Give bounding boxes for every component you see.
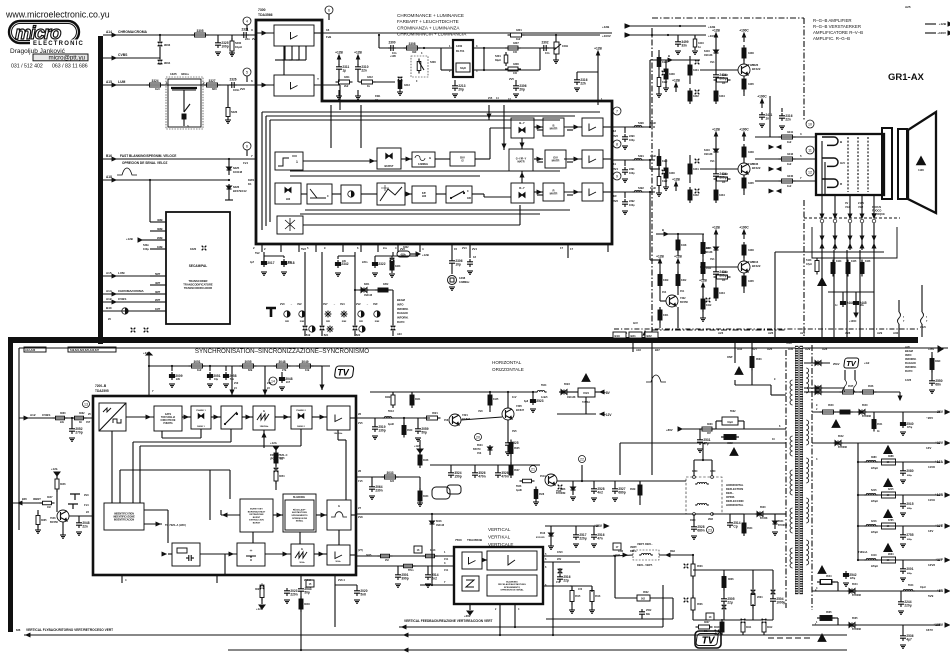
IC block R-Y demod (511, 183, 534, 203)
wire lum path (339, 85, 341, 110)
wire vert row465 (430, 464, 540, 466)
svg-text:3442: 3442 (787, 152, 794, 156)
resistor 3409 (658, 275, 662, 286)
svg-text:1N4148: 1N4148 (567, 396, 576, 399)
capacitor 2017 (263, 259, 265, 262)
svg-text:K1: K1 (248, 182, 252, 186)
capacitor 2322 (375, 255, 418, 257)
wire pin col 305 (304, 252, 306, 336)
svg-text:3V1: 3V1 (680, 290, 685, 293)
svg-text:220n: 220n (362, 261, 368, 264)
svg-text:CVBS: CVBS (42, 413, 50, 417)
wire horiz bus (370, 391, 536, 393)
svg-text:2MB: 2MB (157, 236, 163, 240)
arrows connector 137 (769, 145, 773, 149)
svg-text:3533: 3533 (756, 358, 762, 361)
IC block sync gate G (327, 500, 351, 530)
svg-text:+12B: +12B (672, 178, 680, 182)
svg-text:1325: 1325 (170, 72, 177, 76)
svg-text:−26V: −26V (935, 410, 944, 414)
resistor 3324 (150, 83, 161, 87)
resistor 3785 (882, 523, 896, 529)
wire to flyback pin (775, 513, 786, 515)
svg-text:10n: 10n (545, 51, 550, 55)
svg-text:+12V: +12V (935, 441, 944, 445)
supply +12B pin1 (597, 55, 599, 60)
svg-text:BYD33D: BYD33D (852, 595, 861, 597)
svg-text:3307: 3307 (513, 41, 519, 45)
svg-text:1µ: 1µ (342, 68, 346, 72)
wire pin17 (567, 252, 569, 258)
svg-text:3420: 3420 (662, 160, 668, 163)
arrow A14 (112, 33, 116, 37)
svg-text:3045: 3045 (279, 457, 285, 460)
svg-text:AMPLIFIC. R–G–B: AMPLIFIC. R–G–B (813, 36, 850, 41)
IC 7200-B TDA2595 outline (93, 396, 356, 575)
pwr right edge (925, 23, 936, 25)
svg-text:ONP: ONP (727, 356, 733, 359)
wire +12V rail (812, 442, 940, 444)
capacitor 2527 (614, 486, 616, 489)
diode 6426 (715, 141, 717, 147)
svg-text:10µH: 10µH (727, 422, 733, 424)
pin circle 14 (269, 377, 277, 385)
CRT gun R (822, 179, 838, 187)
sync section top border (19, 347, 948, 349)
svg-text:3V6: 3V6 (613, 134, 618, 138)
resistor 3546 (863, 390, 874, 394)
IC block osc 50hz (291, 544, 314, 566)
svg-text:7300: 7300 (258, 8, 266, 12)
wire A12 cvbs to secam (103, 301, 150, 303)
svg-text:EXTRACCION: EXTRACCION (249, 519, 264, 522)
wire beam col (392, 290, 394, 336)
svg-text:VERT. DEFL.: VERT. DEFL. (637, 542, 653, 546)
svg-text:→: → (366, 303, 369, 306)
svg-text:+12A: +12A (414, 444, 420, 448)
transistor 7528 (545, 474, 557, 486)
svg-text:3502: 3502 (643, 591, 649, 594)
boxed label S19 group (68, 347, 116, 352)
svg-text:3534: 3534 (747, 527, 753, 530)
svg-text:22n: 22n (60, 421, 65, 424)
svg-text:3065: 3065 (41, 519, 47, 522)
svg-text:3544: 3544 (826, 575, 832, 578)
resistor 3054m (274, 471, 278, 481)
wire B16 fast blanking line (103, 158, 256, 160)
wire B35 ident (13, 502, 40, 504)
svg-text:3MO: 3MO (692, 470, 697, 473)
IC block G matrix (545, 150, 566, 168)
svg-text:BF422: BF422 (752, 166, 761, 170)
wire 1v6 node (570, 585, 572, 587)
svg-text:1K: 1K (722, 180, 725, 184)
svg-text:220µH: 220µH (871, 566, 878, 568)
svg-text:3611: 3611 (746, 626, 752, 629)
svg-text:1: 1 (296, 160, 298, 164)
transistor 7521 (449, 414, 461, 426)
resistor 3048 (277, 364, 288, 368)
diode 6535 (847, 624, 857, 626)
wire rail +12B (858, 494, 940, 496)
diode 6524 (489, 445, 491, 455)
transistor 7436 (738, 163, 750, 175)
IC block out amp 50hz (327, 545, 350, 565)
sync IC bottom pins (121, 575, 123, 583)
svg-text:680µ: 680µ (907, 475, 913, 477)
resistor 3405 col (701, 243, 705, 254)
svg-text:÷: ÷ (250, 548, 253, 554)
resistor 3306 (508, 67, 518, 71)
svg-text:6520: 6520 (760, 506, 766, 509)
flyback secondary windings (806, 368, 809, 373)
svg-text:0V13: 0V13 (540, 475, 546, 478)
wire fb bottom (546, 618, 673, 620)
svg-text:10µH: 10µH (235, 45, 242, 49)
svg-text:2n7: 2n7 (286, 381, 291, 384)
svg-text:23: 23 (708, 528, 712, 532)
svg-text:6325: 6325 (233, 166, 240, 170)
svg-text:+8V: +8V (604, 391, 611, 395)
svg-text:2523: 2523 (536, 399, 543, 403)
resistor 3416 collector (742, 48, 746, 58)
IC block gate (154, 406, 182, 431)
svg-text:TRANSCODIFICATORE: TRANSCODIFICATORE (183, 283, 213, 287)
svg-text:BYD33D: BYD33D (536, 537, 545, 539)
svg-text:22h: 22h (342, 260, 347, 263)
svg-text:10V0: 10V0 (557, 551, 563, 554)
svg-text:2322: 2322 (378, 262, 385, 266)
svg-text:CHROMINANCIA + LUMINANCIA: CHROMINANCIA + LUMINANCIA (397, 32, 467, 37)
wire from 7520C (263, 430, 265, 448)
wire RGB out y127 (612, 126, 655, 128)
pin circle 11 (806, 146, 814, 154)
svg-text:1n: 1n (765, 116, 769, 120)
svg-text:3516: 3516 (595, 595, 601, 598)
svg-text:BLANKING: BLANKING (293, 496, 305, 499)
svg-text:3034: 3034 (423, 495, 429, 498)
svg-text:10: 10 (808, 122, 812, 126)
trimmer 3313 (398, 80, 402, 89)
svg-text:A29: A29 (805, 347, 811, 351)
svg-text:FUOCO: FUOCO (872, 208, 881, 212)
svg-text:INFORM.: INFORM. (905, 357, 917, 361)
svg-text:3432: 3432 (693, 193, 699, 197)
IC block burst gate (377, 148, 401, 169)
svg-text:A18: A18 (636, 348, 641, 352)
svg-text:B: B (662, 228, 664, 232)
svg-text:KW1: KW1 (375, 95, 381, 98)
svg-text:3025: 3025 (366, 554, 372, 557)
svg-text:324: 324 (390, 480, 395, 483)
svg-text:TV: TV (846, 359, 857, 368)
svg-text:FASE 2: FASE 2 (297, 425, 305, 428)
CRT band 1 (882, 128, 892, 199)
supply arrow +8V (600, 390, 604, 394)
svg-text:3432: 3432 (693, 94, 699, 98)
svg-text:1V6: 1V6 (578, 589, 583, 591)
IC block vert Z (462, 576, 479, 591)
supply +12B bl1 (659, 263, 661, 268)
svg-text:1R: 1R (613, 194, 617, 198)
trimmer 2516b (558, 569, 563, 574)
transistor 7046 (57, 510, 69, 522)
warning 3785 (884, 510, 892, 518)
svg-text:2MT: 2MT (155, 298, 161, 302)
logo ELECTRONIC text (30, 40, 90, 46)
resistor 3503ew (691, 564, 695, 576)
svg-text:3430: 3430 (669, 72, 675, 76)
capacitor 3524 (450, 470, 452, 473)
svg-text:+100C: +100C (739, 226, 749, 230)
dash-dot frame RGB right (803, 18, 805, 120)
dash-dot right border RGB (803, 200, 805, 337)
capacitor 3526b (497, 470, 499, 473)
svg-text:SPEGNIMENTO: SPEGNIMENTO (504, 587, 520, 589)
TV logo mid (844, 358, 859, 368)
svg-text:B19: B19 (306, 334, 311, 337)
choke 5532 box (722, 417, 738, 425)
capacitor 2023 (286, 588, 288, 591)
svg-text:47µ: 47µ (703, 441, 709, 445)
capacitor 2516 (593, 532, 595, 535)
svg-text:2V5: 2V5 (488, 97, 493, 100)
IC block R matrix (543, 183, 564, 201)
svg-text:3606: 3606 (728, 578, 734, 581)
diode 6416 (715, 42, 717, 48)
coil 5301 (504, 55, 508, 63)
wire stage1 to line1 (769, 96, 771, 137)
svg-text:3525: 3525 (514, 447, 520, 450)
svg-text:22n: 22n (82, 524, 88, 528)
svg-text:10p: 10p (455, 262, 461, 266)
arrow CVBS (112, 56, 116, 60)
capacitor 2531 (699, 437, 701, 440)
wire output to CRT y181 (755, 180, 816, 182)
svg-text:1k2: 1k2 (787, 184, 792, 188)
capacitor 2525e (507, 440, 509, 443)
svg-text:22µ: 22µ (727, 600, 733, 604)
svg-text:TDA3653B: TDA3653B (467, 538, 483, 542)
IC block osc 15625 (253, 406, 275, 430)
svg-text:2392: 2392 (629, 200, 635, 203)
svg-text:3546: 3546 (868, 385, 874, 388)
svg-text:1100: 1100 (918, 168, 924, 172)
svg-text:A32: A32 (737, 347, 743, 351)
supply +100C down (855, 307, 857, 313)
svg-text:1n: 1n (698, 45, 701, 49)
wire ONP bottom (735, 384, 771, 386)
svg-text:1MO: 1MO (690, 519, 695, 522)
resistor 9634 (882, 557, 896, 563)
IC block burst key (240, 499, 273, 532)
svg-text:5443: 5443 (806, 259, 812, 262)
capacitor 2009 (171, 372, 173, 375)
svg-text:3054: 3054 (279, 475, 285, 478)
diode 6326 (228, 184, 230, 194)
svg-text:FASE 1: FASE 1 (197, 425, 205, 428)
svg-text:A25: A25 (905, 5, 911, 9)
capacitor 2526 (593, 486, 595, 489)
resistor 3630 (702, 427, 712, 431)
resistor 3440 (782, 179, 793, 183)
capacitor 2318 (283, 259, 285, 262)
wire chroma delay path (378, 35, 380, 48)
capacitor 3499 (677, 35, 679, 39)
svg-text:MATR: MATR (552, 159, 560, 163)
svg-text:2390: 2390 (629, 135, 635, 138)
svg-text:2n2: 2n2 (431, 576, 437, 580)
wire col 775 (774, 252, 776, 337)
CRT gun G (822, 158, 838, 166)
svg-text:1610: 1610 (871, 554, 877, 557)
svg-text:3V1: 3V1 (710, 159, 715, 163)
svg-text:A12,A32: A12,A32 (25, 348, 36, 352)
resistor 2414 (715, 65, 717, 72)
svg-text:TV: TV (702, 636, 716, 647)
svg-text:SEÑAL: SEÑAL (296, 520, 304, 523)
pin circle 10 (806, 120, 814, 128)
svg-text:A27: A27 (800, 331, 806, 335)
capacitor 2502 (641, 609, 643, 612)
resistor 3525 (509, 443, 513, 454)
pin circle 23 (707, 527, 714, 534)
svg-text:20: 20 (476, 435, 480, 439)
pin circle 16 (414, 546, 422, 553)
svg-text:3435: 3435 (748, 181, 754, 185)
svg-text:3µH3: 3µH3 (650, 155, 656, 158)
svg-text:22p: 22p (563, 578, 569, 582)
wire blanking junction (228, 158, 230, 160)
arrow A18 (112, 178, 116, 182)
svg-text:RAGGIO: RAGGIO (397, 311, 408, 315)
svg-text:LUM: LUM (118, 271, 125, 275)
svg-text:2321: 2321 (241, 28, 248, 32)
svg-text:100: 100 (513, 51, 518, 54)
resistor 3023 (260, 587, 264, 598)
svg-text:3545: 3545 (848, 385, 854, 388)
IC U300 TDA3566 outline (256, 20, 612, 244)
svg-text:10µ: 10µ (214, 378, 219, 381)
resistor 3069 (391, 395, 395, 405)
svg-text:11: 11 (613, 162, 616, 166)
svg-text:3436: 3436 (748, 248, 754, 252)
vert IC bottom pins (499, 604, 501, 635)
svg-text:B16: B16 (106, 154, 112, 158)
capacitor 2051 (209, 372, 211, 375)
svg-text:HORIZONTAL: HORIZONTAL (726, 483, 744, 487)
svg-text:3535: 3535 (826, 611, 832, 614)
svg-text:B21: B21 (324, 334, 329, 337)
resistor 3040 (299, 599, 303, 609)
svg-text:2V6 4: 2V6 4 (338, 578, 345, 582)
svg-text:3322: 3322 (403, 246, 409, 249)
svg-text:2V0: 2V0 (280, 302, 285, 306)
transistor 7426 (738, 64, 750, 76)
stage3 beam limiter input line (656, 233, 704, 235)
CRT horn (908, 112, 936, 213)
svg-text:3435: 3435 (748, 279, 754, 283)
thick horizontal divider bar (8, 337, 918, 343)
svg-text:7200–B: 7200–B (95, 384, 107, 388)
left resistor col 1 (657, 58, 661, 67)
svg-text:CVBS: CVBS (118, 297, 126, 301)
svg-text:4n2: 4n2 (597, 490, 603, 494)
svg-text:PHASE 1: PHASE 1 (196, 409, 206, 412)
ecap 3506b (723, 570, 725, 576)
svg-text:1MT: 1MT (155, 307, 161, 311)
resistor 3046v (418, 455, 422, 465)
capacitor 2523 (532, 397, 534, 400)
svg-text:+185V: +185V (933, 623, 944, 627)
svg-text:max: max (300, 321, 305, 323)
resistor 3610 (720, 622, 724, 632)
svg-text:6016: 6016 (436, 520, 442, 523)
svg-text:+12B: +12B (712, 29, 720, 33)
diode 6516 (550, 526, 552, 531)
resistor 3411 col (701, 263, 705, 274)
capacitor 2302 (541, 47, 544, 49)
svg-text:INFO: INFO (397, 302, 403, 306)
svg-text:A20: A20 (905, 345, 910, 349)
svg-text:BYD33D: BYD33D (862, 416, 871, 418)
svg-text:430k: 430k (400, 254, 406, 257)
svg-text:6: 6 (246, 144, 248, 148)
svg-text:VERTICAL: VERTICAL (488, 527, 511, 532)
resistor 3541 (872, 420, 876, 429)
IC block kill (277, 216, 303, 234)
dash-dot horizontal mid right (614, 328, 918, 330)
svg-text:12V8: 12V8 (905, 378, 912, 382)
svg-text:BF422: BF422 (752, 264, 761, 268)
T symbol (266, 308, 276, 317)
svg-text:11V8: 11V8 (928, 465, 935, 469)
svg-text:470µ: 470µ (907, 426, 913, 429)
resistor 3311 (339, 80, 350, 84)
svg-text:B: B (668, 54, 670, 58)
svg-text:AMPLIFICATORE R–V–B: AMPLIFICATORE R–V–B (813, 30, 863, 35)
svg-text:+12B: +12B (390, 55, 396, 58)
svg-text:1V4: 1V4 (243, 161, 248, 165)
svg-text:3444: 3444 (836, 260, 842, 263)
svg-text:68n: 68n (935, 382, 941, 386)
svg-text:2k2: 2k2 (344, 84, 349, 88)
svg-text:17: 17 (570, 247, 574, 251)
dash-dot frame RGB bottom (652, 329, 786, 331)
svg-text:SPEGNIMENTO: SPEGNIMENTO (291, 515, 307, 517)
svg-text:3431: 3431 (693, 167, 699, 171)
svg-text:7305: 7305 (516, 404, 522, 408)
IC bottom pins (261, 244, 263, 252)
svg-text:230n: 230n (375, 488, 382, 492)
svg-text:5: 5 (246, 70, 248, 74)
svg-text:2015: 2015 (906, 502, 913, 506)
resistor 3065 (37, 510, 39, 514)
svg-text:2502: 2502 (646, 609, 652, 612)
yoke coil bottom (695, 504, 697, 506)
resistor 3444 (831, 263, 835, 274)
wire sync out 26 (356, 417, 430, 419)
svg-text:−26V: −26V (926, 416, 933, 420)
svg-text:+G2: +G2 (864, 361, 870, 365)
svg-text:DL701: DL701 (456, 49, 465, 53)
drive transformer 1524 (578, 388, 595, 397)
svg-text:DEFL.: DEFL. (630, 550, 638, 553)
svg-text:A26: A26 (767, 347, 773, 351)
svg-text:ESTRAZIONE: ESTRAZIONE (249, 513, 264, 516)
svg-text:1V1: 1V1 (444, 569, 449, 572)
svg-text:micro@ptt.yu: micro@ptt.yu (48, 55, 85, 62)
